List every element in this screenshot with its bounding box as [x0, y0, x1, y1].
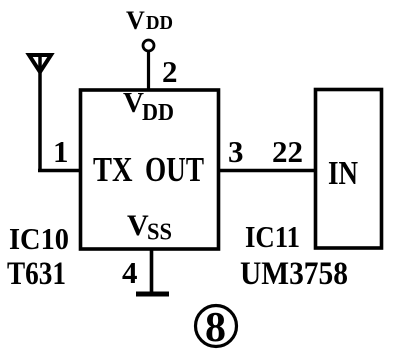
svg-text:8: 8 — [205, 305, 226, 351]
wire pin4 — [150, 248, 154, 293]
IC U1 box (T631) — [81, 90, 219, 249]
figure number 8 circle — [196, 306, 237, 347]
svg-text:V: V — [126, 6, 145, 35]
svg-text:V: V — [127, 209, 149, 242]
ground — [136, 292, 169, 297]
VDD terminal circle — [143, 40, 154, 51]
svg-text:IC10: IC10 — [9, 221, 69, 256]
svg-text:SS: SS — [147, 220, 172, 246]
svg-text:IN: IN — [328, 155, 358, 192]
svg-text:4: 4 — [122, 255, 138, 290]
svg-text:T631: T631 — [7, 256, 66, 292]
svg-text:IC11: IC11 — [245, 219, 300, 254]
wire pin1 — [38, 169, 82, 173]
svg-text:DD: DD — [142, 100, 174, 126]
svg-text:DD: DD — [146, 12, 173, 34]
svg-text:3: 3 — [228, 134, 244, 169]
svg-text:1: 1 — [53, 134, 69, 169]
antenna — [29, 54, 51, 170]
svg-text:TX: TX — [93, 150, 133, 189]
svg-text:UM3758: UM3758 — [240, 256, 348, 292]
IC U2 box (UM3758) — [316, 90, 382, 249]
wire pin3 to pin22 — [218, 169, 316, 173]
svg-text:2: 2 — [162, 54, 178, 89]
wire pin2 — [147, 51, 150, 90]
svg-text:22: 22 — [272, 134, 303, 169]
svg-text:V: V — [123, 87, 144, 119]
svg-text:OUT: OUT — [145, 150, 204, 189]
